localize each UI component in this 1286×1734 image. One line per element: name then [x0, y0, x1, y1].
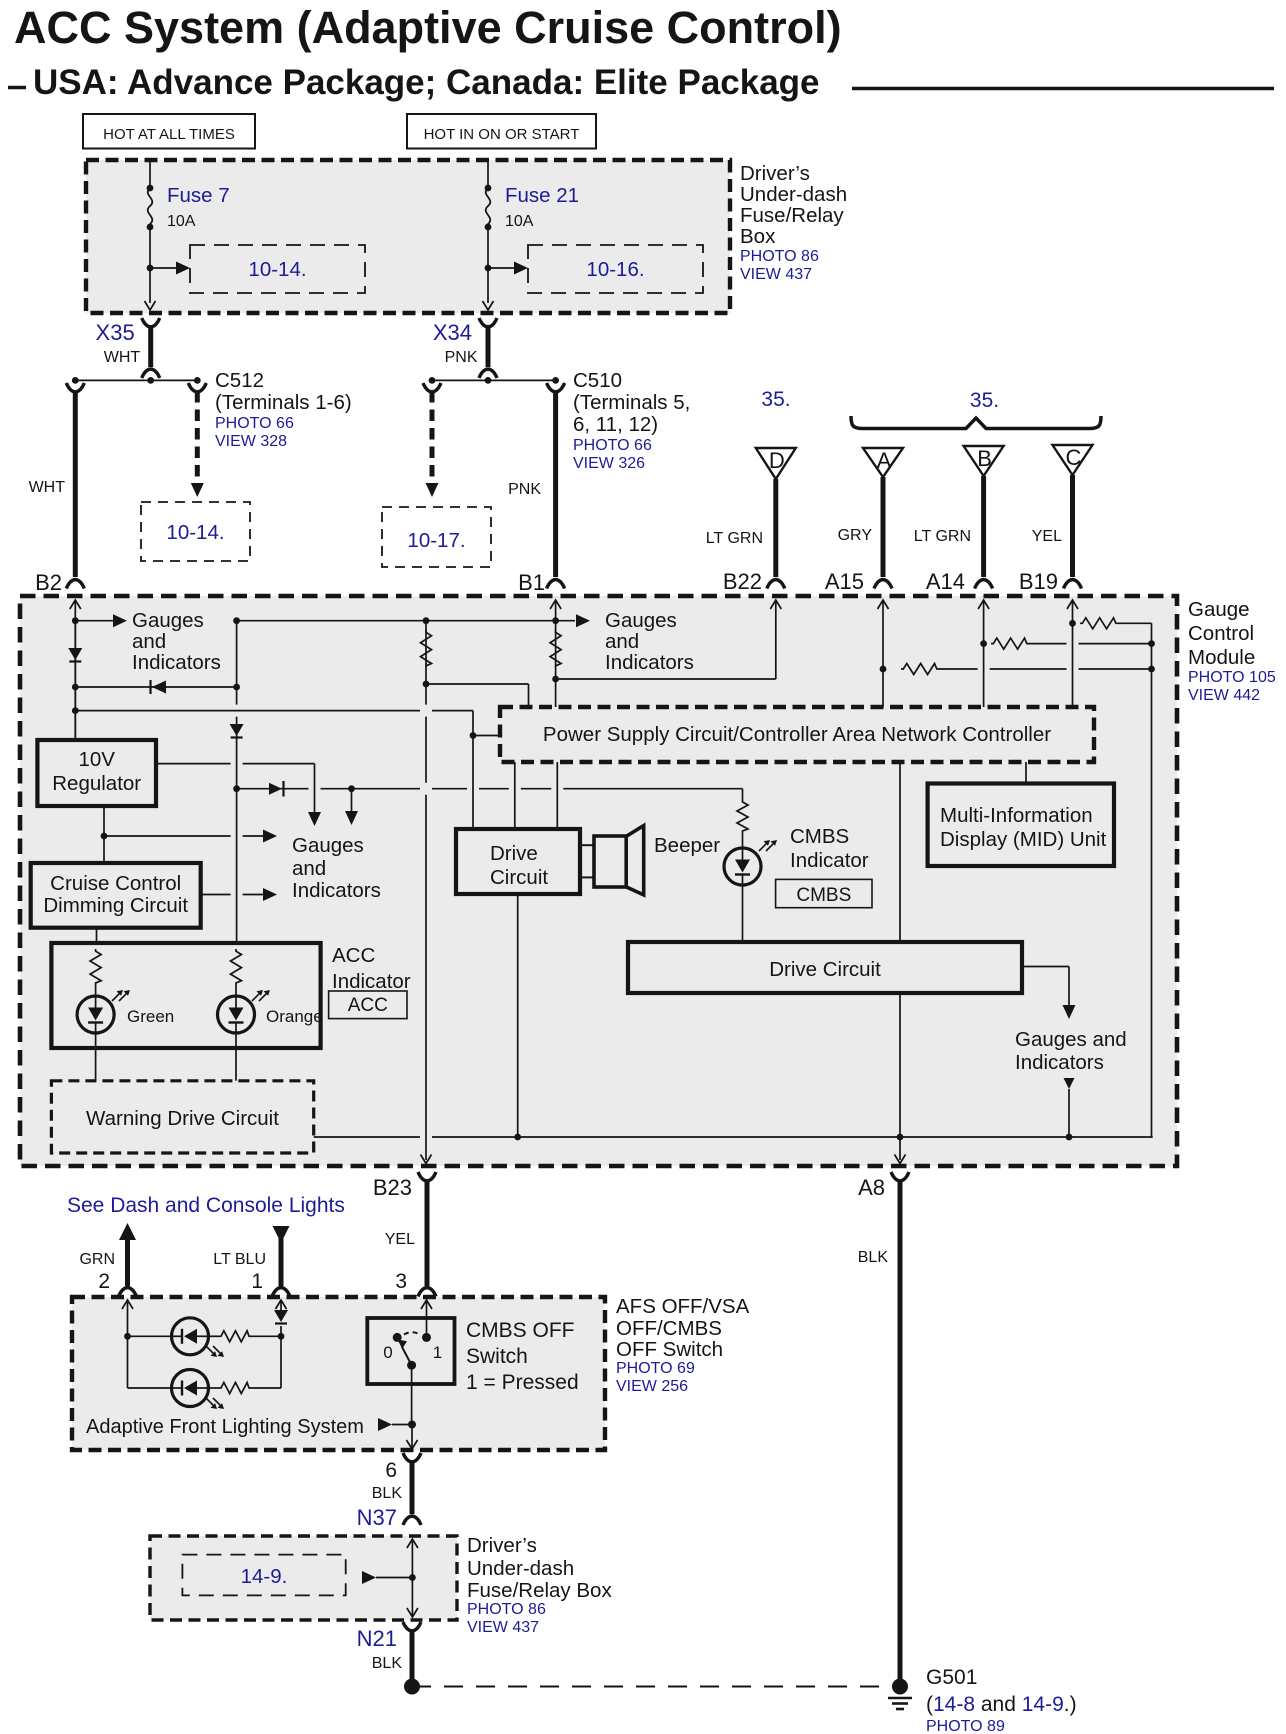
- svg-text:VIEW 328: VIEW 328: [215, 433, 287, 450]
- svg-text:VIEW 256: VIEW 256: [616, 1378, 688, 1395]
- svg-text:D: D: [769, 448, 785, 473]
- svg-text:AFS OFF/VSA: AFS OFF/VSA: [616, 1295, 750, 1318]
- svg-text:USA: Advance Package; Canada:: USA: Advance Package; Canada: Elite Pack…: [33, 63, 820, 102]
- svg-text:CMBS OFF: CMBS OFF: [466, 1319, 575, 1342]
- svg-text:Display (MID) Unit: Display (MID) Unit: [940, 828, 1107, 851]
- svg-text:X35: X35: [96, 320, 135, 345]
- svg-text:Fuse 21: Fuse 21: [505, 184, 579, 207]
- svg-text:PHOTO 89: PHOTO 89: [926, 1718, 1005, 1734]
- svg-text:Indicators: Indicators: [1015, 1051, 1104, 1074]
- svg-text:VIEW 437: VIEW 437: [467, 1619, 539, 1636]
- svg-text:B23: B23: [373, 1175, 412, 1200]
- svg-text:C510: C510: [573, 369, 622, 392]
- svg-text:PNK: PNK: [445, 349, 478, 366]
- svg-text:Orange: Orange: [266, 1007, 323, 1026]
- svg-text:HOT IN ON OR START: HOT IN ON OR START: [424, 126, 580, 143]
- svg-text:Driver’s: Driver’s: [467, 1534, 537, 1557]
- svg-text:1: 1: [433, 1343, 442, 1362]
- svg-text:CMBS: CMBS: [790, 825, 849, 848]
- svg-text:BLK: BLK: [372, 1655, 403, 1672]
- svg-text:10-14.: 10-14.: [248, 258, 306, 281]
- svg-text:YEL: YEL: [385, 1231, 415, 1248]
- svg-text:Gauges: Gauges: [132, 609, 204, 632]
- svg-text:See Dash and Console Lights: See Dash and Console Lights: [67, 1194, 345, 1217]
- svg-text:GRN: GRN: [79, 1251, 115, 1268]
- svg-text:VIEW 437: VIEW 437: [740, 266, 812, 283]
- svg-text:Adaptive Front Lighting System: Adaptive Front Lighting System: [86, 1416, 364, 1438]
- svg-text:N21: N21: [357, 1626, 397, 1651]
- svg-text:and: and: [292, 857, 326, 880]
- svg-text:Circuit: Circuit: [490, 866, 548, 889]
- svg-text:Module: Module: [1188, 646, 1255, 669]
- svg-text:Beeper: Beeper: [654, 834, 720, 857]
- svg-text:BLK: BLK: [858, 1249, 889, 1266]
- svg-text:Box: Box: [740, 225, 776, 248]
- svg-text:Dimming Circuit: Dimming Circuit: [43, 894, 188, 917]
- svg-text:Green: Green: [127, 1007, 174, 1026]
- svg-text:Gauges: Gauges: [605, 609, 677, 632]
- svg-text:Multi-Information: Multi-Information: [940, 804, 1093, 827]
- svg-text:X34: X34: [433, 320, 472, 345]
- svg-text:Drive Circuit: Drive Circuit: [769, 958, 881, 981]
- svg-text:Indicator: Indicator: [790, 849, 869, 872]
- svg-text:10A: 10A: [167, 213, 196, 230]
- svg-text:PHOTO 66: PHOTO 66: [573, 437, 652, 454]
- svg-text:Cruise Control: Cruise Control: [50, 872, 181, 895]
- svg-text:A14: A14: [926, 569, 965, 594]
- svg-text:PHOTO 66: PHOTO 66: [215, 415, 294, 432]
- svg-text:B22: B22: [723, 569, 762, 594]
- svg-text:B2: B2: [35, 570, 62, 595]
- svg-text:Driver’s: Driver’s: [740, 162, 810, 185]
- svg-text:1: 1: [251, 1270, 263, 1293]
- svg-text:LT GRN: LT GRN: [706, 530, 763, 547]
- svg-text:LT GRN: LT GRN: [914, 528, 971, 545]
- svg-text:(Terminals 5,: (Terminals 5,: [573, 391, 690, 414]
- svg-text:35.: 35.: [761, 388, 790, 411]
- svg-text:PHOTO 86: PHOTO 86: [467, 1601, 546, 1618]
- svg-text:PNK: PNK: [508, 481, 541, 498]
- svg-text:10-16.: 10-16.: [586, 258, 644, 281]
- svg-text:Under-dash: Under-dash: [467, 1557, 574, 1580]
- svg-text:Control: Control: [1188, 622, 1254, 645]
- svg-text:(14-8 and 14-9.): (14-8 and 14-9.): [926, 1693, 1077, 1716]
- svg-text:Switch: Switch: [466, 1345, 528, 1368]
- svg-text:VIEW 442: VIEW 442: [1188, 687, 1260, 704]
- svg-text:Gauges and: Gauges and: [1015, 1028, 1127, 1051]
- svg-text:PHOTO 86: PHOTO 86: [740, 248, 819, 265]
- svg-text:and: and: [605, 630, 639, 653]
- svg-text:Gauge: Gauge: [1188, 598, 1250, 621]
- svg-text:Power Supply Circuit/Controlle: Power Supply Circuit/Controller Area Net…: [543, 723, 1051, 746]
- svg-text:Regulator: Regulator: [52, 772, 141, 795]
- svg-text:CMBS: CMBS: [796, 885, 851, 906]
- svg-text:A15: A15: [825, 569, 864, 594]
- svg-text:Under-dash: Under-dash: [740, 183, 847, 206]
- svg-text:and: and: [132, 630, 166, 653]
- svg-text:ACC: ACC: [332, 944, 375, 967]
- svg-text:ACC System (Adaptive Cruise Co: ACC System (Adaptive Cruise Control): [14, 2, 842, 53]
- svg-text:B: B: [977, 446, 992, 471]
- svg-text:A8: A8: [858, 1175, 885, 1200]
- svg-text:Fuse/Relay Box: Fuse/Relay Box: [467, 1579, 612, 1602]
- svg-text:YEL: YEL: [1032, 528, 1062, 545]
- svg-text:Warning Drive Circuit: Warning Drive Circuit: [86, 1107, 279, 1130]
- svg-text:GRY: GRY: [838, 527, 873, 544]
- svg-text:WHT: WHT: [29, 479, 66, 496]
- svg-text:(Terminals 1-6): (Terminals 1-6): [215, 391, 352, 414]
- svg-text:PHOTO 69: PHOTO 69: [616, 1360, 695, 1377]
- svg-text:Indicators: Indicators: [132, 651, 221, 674]
- svg-text:Drive: Drive: [490, 842, 538, 865]
- svg-text:Gauges: Gauges: [292, 834, 364, 857]
- svg-text:Indicators: Indicators: [292, 879, 381, 902]
- svg-text:2: 2: [98, 1270, 110, 1293]
- svg-text:0: 0: [383, 1343, 392, 1362]
- svg-text:OFF/CMBS: OFF/CMBS: [616, 1317, 722, 1340]
- svg-text:ACC: ACC: [348, 995, 388, 1016]
- svg-text:10-14.: 10-14.: [166, 521, 224, 544]
- svg-text:WHT: WHT: [104, 349, 141, 366]
- svg-text:N37: N37: [357, 1505, 397, 1530]
- svg-text:3: 3: [395, 1270, 407, 1293]
- svg-text:HOT AT ALL TIMES: HOT AT ALL TIMES: [103, 126, 235, 143]
- svg-text:PHOTO 105: PHOTO 105: [1188, 669, 1276, 686]
- svg-text:B1: B1: [518, 570, 545, 595]
- svg-text:6: 6: [385, 1459, 397, 1482]
- svg-text:Indicators: Indicators: [605, 651, 694, 674]
- svg-text:VIEW 326: VIEW 326: [573, 455, 645, 472]
- svg-text:A: A: [877, 448, 892, 473]
- svg-text:10A: 10A: [505, 213, 534, 230]
- svg-text:10-17.: 10-17.: [407, 529, 465, 552]
- svg-text:LT BLU: LT BLU: [213, 1251, 266, 1268]
- svg-text:10V: 10V: [78, 748, 115, 771]
- svg-text:BLK: BLK: [372, 1485, 403, 1502]
- svg-text:Indicator: Indicator: [332, 970, 411, 993]
- svg-text:C512: C512: [215, 369, 264, 392]
- svg-text:1 = Pressed: 1 = Pressed: [466, 1371, 579, 1394]
- svg-text:Fuse 7: Fuse 7: [167, 184, 230, 207]
- svg-text:35.: 35.: [970, 389, 999, 412]
- svg-text:B19: B19: [1019, 569, 1058, 594]
- svg-text:Fuse/Relay: Fuse/Relay: [740, 204, 844, 227]
- svg-text:14-9.: 14-9.: [241, 1565, 288, 1588]
- svg-text:C: C: [1066, 445, 1082, 470]
- svg-text:G501: G501: [926, 1666, 977, 1689]
- svg-text:6, 11, 12): 6, 11, 12): [573, 413, 658, 436]
- svg-text:OFF Switch: OFF Switch: [616, 1338, 723, 1361]
